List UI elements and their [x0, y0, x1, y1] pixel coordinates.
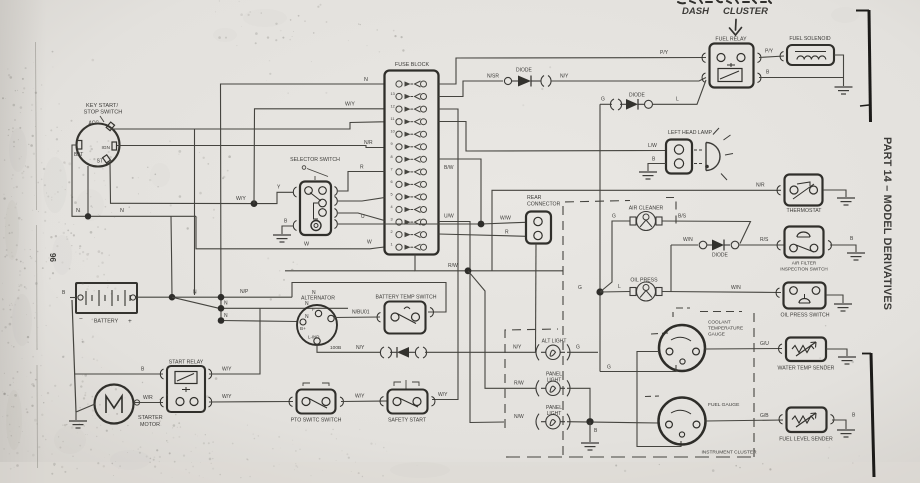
wire relay to PTO switch: [209, 401, 293, 404]
svg-text:PART 14 – MODEL DERIVATIVES: PART 14 – MODEL DERIVATIVES: [881, 137, 893, 310]
svg-text:W/Y: W/Y: [355, 394, 365, 400]
battery temp switch: [377, 302, 433, 334]
wire headlamp B to ground: [648, 164, 666, 172]
wire oil press switch ground: [826, 295, 843, 303]
svg-text:G/B: G/B: [760, 413, 769, 419]
wire fuse row13 right to P/Y feed: [439, 58, 707, 85]
svg-text:COOLANT: COOLANT: [708, 320, 731, 325]
diode (alternator lamp line): [380, 347, 426, 358]
svg-text:W: W: [367, 240, 372, 246]
svg-text:ACC: ACC: [88, 121, 99, 127]
wire fuse row3 right U/W drop to panel light: [439, 222, 505, 423]
svg-text:G/U: G/U: [760, 341, 769, 347]
oil press switch: [776, 283, 825, 309]
svg-text:G: G: [576, 345, 580, 351]
wire N trunk from fuse row 13 to battery junctions: [221, 84, 385, 321]
wire PTO to safety start W/Y: [341, 400, 387, 403]
diode (charge line): [504, 76, 551, 87]
wire N trunk corner to fuse row 1: [196, 216, 384, 249]
selector switch lever mark: [302, 166, 328, 180]
safety start ticks: [394, 380, 419, 389]
wire diagonal N link: [172, 297, 219, 308]
selector switch: [293, 182, 337, 236]
wire air cleaner B/S: [662, 221, 751, 244]
ground (oil press switch): [834, 304, 852, 311]
wire L to oil press: [600, 291, 630, 294]
wire selector pin3 U to fuse: [338, 213, 385, 221]
wire ACC branch drop: [194, 129, 196, 295]
wire fuse row10 right to headlamp feed L/W: [439, 122, 667, 152]
svg-text:R/W: R/W: [514, 381, 524, 387]
ground (panel lights): [581, 443, 599, 450]
wire junction to ground: [589, 422, 591, 442]
wire panel lights to fuel gauge: [567, 422, 659, 423]
svg-text:PTO SWITC SWITCH: PTO SWITC SWITCH: [291, 418, 342, 424]
panel light 1: [536, 380, 570, 396]
instrument cluster dashed outline left: [505, 198, 754, 458]
svg-text:IGN: IGN: [101, 145, 110, 151]
svg-text:N/BU01: N/BU01: [352, 310, 370, 316]
svg-text:R: R: [505, 230, 509, 236]
wire alt light to G trunk: [567, 351, 598, 353]
svg-text:FUEL GAUGE: FUEL GAUGE: [708, 402, 740, 408]
left head lamp connector: [666, 140, 692, 174]
wire diode output N/Y to fuel relay: [551, 78, 706, 82]
wire selector pin4 to rear connector W/W: [338, 222, 526, 224]
wire N line 2: [221, 307, 348, 309]
ground (head lamp): [639, 172, 657, 179]
wire fuel level sender ground B: [832, 420, 846, 429]
ground (thermostat): [837, 198, 855, 205]
handwritten arrow to fuel relay: [730, 20, 742, 36]
wire fuse row7 right B/W drop: [439, 159, 482, 224]
selector ground wire B: [282, 226, 293, 234]
fuel solenoid: [780, 45, 834, 65]
svg-text:6: 6: [391, 180, 393, 184]
svg-text:GAUGE: GAUGE: [708, 332, 725, 337]
svg-text:L: L: [676, 97, 679, 103]
wire W/N to diode: [671, 244, 698, 246]
water temp sender: [779, 338, 826, 362]
wire W/Y riser safety start: [432, 109, 458, 400]
svg-text:U/W: U/W: [444, 214, 454, 220]
junction R/W node: [465, 267, 472, 274]
battery: [76, 283, 137, 313]
ground (starter motor): [69, 421, 87, 428]
ground (selector switch): [273, 235, 291, 242]
ground (water temp sender): [838, 357, 856, 364]
wire fuse bottom to R/W run: [415, 255, 563, 271]
svg-text:G: G: [607, 365, 611, 371]
svg-text:N/R: N/R: [756, 183, 765, 189]
svg-text:OIL PRESS SWITCH: OIL PRESS SWITCH: [780, 313, 829, 319]
wire W/Y riser to fuse row 11: [254, 109, 385, 204]
svg-text:BATTERY: BATTERY: [94, 319, 119, 325]
svg-text:WATER TEMP SENDER: WATER TEMP SENDER: [778, 366, 835, 372]
ground (fuel relay / solenoid): [835, 87, 853, 94]
svg-text:FUEL RELAY: FUEL RELAY: [715, 37, 747, 43]
svg-text:F: F: [312, 307, 315, 312]
svg-text:B/S: B/S: [678, 214, 687, 220]
wire coolant gauge to water temp sender G/U: [705, 348, 782, 351]
svg-text:BATTERY TEMP SWITCH: BATTERY TEMP SWITCH: [376, 295, 437, 301]
svg-text:N/Y: N/Y: [356, 345, 365, 351]
svg-text:AIR CLEANER: AIR CLEANER: [629, 206, 664, 212]
svg-text:R/W: R/W: [448, 263, 458, 269]
wire IGN to fuse block: [117, 146, 385, 148]
wire thermostat feed riser: [492, 190, 781, 270]
wire air filter switch to ground B: [830, 245, 856, 252]
wire W/N riser from oil press line: [670, 245, 672, 292]
svg-text:12: 12: [391, 105, 395, 109]
starter motor: [95, 385, 134, 424]
svg-text:G: G: [578, 285, 582, 291]
svg-text:N/P: N/P: [240, 289, 249, 295]
junction W/Y node: [251, 200, 258, 207]
wire battery positive drop: [72, 300, 76, 412]
svg-text:N: N: [120, 208, 124, 214]
wire battery negative feed N line: [137, 296, 292, 298]
svg-text:TEMPERATURE: TEMPERATURE: [708, 326, 743, 331]
svg-text:N: N: [364, 77, 368, 83]
handwritten note (cut off line): [678, 0, 771, 3]
svg-text:SAFETY START: SAFETY START: [388, 418, 427, 424]
wire G trunk vertical: [599, 104, 601, 371]
air filter inspection switch: [777, 227, 831, 258]
svg-text:W/Y: W/Y: [345, 102, 355, 108]
fuse block pin numbers: [391, 92, 395, 247]
wire thermostat to ground: [823, 190, 846, 197]
svg-text:W/N: W/N: [683, 237, 693, 243]
PTO switch ticks: [303, 383, 329, 386]
svg-text:N/R: N/R: [364, 140, 373, 146]
svg-text:5: 5: [391, 192, 393, 196]
svg-text:L-IND: L-IND: [308, 335, 319, 340]
panel light 2: [536, 414, 570, 430]
air cleaner sender: [630, 212, 662, 231]
svg-text:L: L: [618, 284, 621, 290]
svg-text:INSPECTION SWITCH: INSPECTION SWITCH: [780, 267, 827, 272]
wire BAT feed (key switch to N trunk): [72, 145, 196, 216]
key start/stop switch: [77, 122, 120, 166]
svg-text:3: 3: [391, 218, 393, 222]
fuel relay: [702, 44, 761, 88]
svg-text:B/W: B/W: [444, 165, 454, 171]
junction key body / N wire: [85, 213, 91, 219]
wire air cleaner drop: [600, 221, 630, 292]
svg-text:N: N: [193, 290, 197, 296]
svg-text:+: +: [128, 318, 132, 325]
svg-text:DIODE: DIODE: [712, 253, 729, 259]
start relay: [160, 366, 211, 412]
svg-text:11: 11: [391, 117, 395, 121]
svg-text:N: N: [224, 313, 228, 319]
wire fuel relay to solenoid P/Y: [759, 56, 784, 58]
svg-text:ST: ST: [97, 159, 103, 165]
svg-text:G: G: [601, 97, 605, 103]
wire panel light 1 to junction: [567, 388, 590, 421]
svg-text:STARTER: STARTER: [138, 415, 163, 421]
svg-text:N/Y: N/Y: [513, 345, 522, 351]
svg-text:7: 7: [391, 167, 393, 171]
wire N branch down to battery line: [171, 216, 172, 297]
svg-text:BAT: BAT: [74, 152, 83, 158]
svg-text:1: 1: [391, 243, 393, 247]
fuel gauge: [659, 398, 706, 445]
svg-text:CLUSTER: CLUSTER: [723, 6, 769, 17]
svg-text:KEY START/: KEY START/: [86, 103, 118, 109]
svg-text:SELECTOR SWITCH: SELECTOR SWITCH: [290, 157, 340, 163]
svg-text:100B: 100B: [330, 345, 341, 351]
wire R/S to air filter switch: [739, 244, 784, 246]
wire fuse row2 to rear connector R: [439, 234, 527, 236]
diode (dash lamp feed): [610, 99, 652, 110]
svg-text:THERMOSTAT: THERMOSTAT: [787, 208, 823, 214]
wire solenoid to ground: [834, 55, 844, 86]
ground (fuel level sender): [837, 430, 855, 437]
wire fuse row12 right to diode line: [439, 81, 504, 97]
fuel level sender: [779, 408, 834, 433]
wire alternator field to battery temp switch: [334, 316, 380, 319]
wire starter motor to relay W/R: [134, 402, 163, 404]
wire selector pin2 to fuse row10: [338, 198, 385, 202]
head lamp bulb: [694, 128, 733, 180]
wire starter to ground: [76, 404, 95, 420]
svg-text:W/Y: W/Y: [236, 196, 246, 202]
thermostat: [777, 175, 822, 206]
alt light: [536, 344, 570, 360]
wire ST run to selector switch: [110, 163, 293, 204]
svg-text:4: 4: [391, 205, 393, 209]
alternator: [297, 305, 337, 345]
wire fuel relay B to ground: [759, 77, 844, 79]
wire oil press to switch W/N: [662, 292, 781, 293]
svg-text:N/Y: N/Y: [560, 74, 569, 80]
junction N line dots: [169, 294, 176, 301]
wire N/P riser to battery temp switch: [292, 283, 446, 313]
oil press sender: [630, 282, 662, 301]
wire L diode to fuel relay: [653, 80, 707, 104]
svg-text:R: R: [360, 165, 364, 171]
svg-text:N/SR: N/SR: [487, 74, 499, 80]
wire B to start relay: [75, 373, 163, 375]
svg-text:DIODE: DIODE: [629, 93, 646, 99]
wire selector R to fuse row8: [338, 172, 385, 192]
wire R/W diagonal to panel light feed: [468, 271, 536, 389]
svg-text:MOTOR: MOTOR: [140, 422, 160, 428]
wire alternator lamp lead 100B/NY: [317, 345, 381, 353]
svg-text:DASH: DASH: [682, 6, 710, 17]
svg-text:P/Y: P/Y: [660, 50, 669, 56]
svg-text:B+: B+: [300, 326, 306, 331]
wire coolant gauge left to fuel gauge trunk: [637, 352, 681, 447]
svg-text:N: N: [224, 301, 228, 307]
wire gauge feed from G trunk: [600, 365, 676, 372]
wire ACC to fuse block: [111, 122, 385, 129]
svg-text:STOP SWITCH: STOP SWITCH: [84, 110, 123, 116]
svg-text:−: −: [79, 316, 83, 323]
svg-text:FUSE BLOCK: FUSE BLOCK: [395, 62, 430, 68]
svg-text:8: 8: [391, 155, 393, 159]
svg-text:FUEL LEVEL SENDER: FUEL LEVEL SENDER: [779, 437, 833, 443]
wire water temp sender ground: [826, 349, 847, 356]
wire fuel gauge to fuel level sender G/B: [706, 420, 784, 421]
svg-text:INSTRUMENT CLUSTER: INSTRUMENT CLUSTER: [701, 450, 757, 456]
right margin thick rule (bottom segment): [862, 353, 874, 477]
svg-text:13: 13: [391, 92, 395, 96]
svg-text:R/S: R/S: [760, 237, 769, 243]
key start/stop switch label: [84, 103, 123, 122]
wire N/Y to alt light: [425, 351, 536, 353]
ground (air filter switch): [847, 253, 865, 260]
rear connector: [526, 212, 551, 244]
safety start switch: [380, 390, 435, 414]
wire N line 3 to alternator B+: [221, 321, 298, 322]
junction W/W node: [478, 221, 485, 228]
svg-text:W/Y: W/Y: [222, 367, 232, 373]
fuse block fuses 1-13: [396, 81, 427, 250]
junction G node: [596, 288, 603, 295]
wire rear connector drop to lamp feed: [535, 244, 538, 353]
svg-text:CONNECTOR: CONNECTOR: [527, 202, 561, 208]
svg-text:ALTERNATOR: ALTERNATOR: [301, 296, 335, 302]
svg-text:W/R: W/R: [143, 395, 153, 401]
svg-text:10: 10: [391, 130, 395, 134]
svg-text:ALT LIGHT: ALT LIGHT: [542, 339, 567, 345]
faint left page border: [36, 42, 38, 468]
svg-text:L/W: L/W: [648, 143, 657, 149]
svg-text:FUEL SOLENOID: FUEL SOLENOID: [789, 36, 831, 42]
svg-text:9: 9: [391, 142, 393, 146]
svg-text:2: 2: [391, 230, 393, 234]
svg-text:LEFT HEAD LAMP: LEFT HEAD LAMP: [668, 130, 713, 136]
svg-text:W/W: W/W: [500, 216, 511, 222]
svg-text:REAR: REAR: [527, 195, 542, 201]
svg-text:W/Y: W/Y: [222, 394, 232, 400]
svg-text:P/Y: P/Y: [765, 49, 774, 55]
junction B node: [586, 418, 593, 425]
right margin thick rule (top segment): [856, 10, 871, 122]
svg-text:N: N: [305, 314, 309, 320]
svg-text:W/Y: W/Y: [438, 392, 448, 398]
scan speckle noise 3: [1, 60, 551, 478]
svg-text:W/N: W/N: [731, 285, 741, 291]
PTO safety switch: [289, 390, 343, 414]
svg-text:START RELAY: START RELAY: [169, 360, 204, 366]
svg-text:DIODE: DIODE: [516, 68, 533, 74]
svg-text:N/W: N/W: [514, 414, 524, 420]
fuse block: [385, 71, 439, 255]
wire key switch body drop: [87, 166, 89, 216]
coolant temperature gauge: [659, 325, 705, 371]
svg-text:G: G: [612, 214, 616, 220]
wire relay W/Y riser: [209, 308, 260, 374]
svg-text:AIR FILTER: AIR FILTER: [792, 261, 817, 266]
diode (air filter warning): [699, 240, 739, 251]
wire G to charge diode: [600, 103, 612, 105]
